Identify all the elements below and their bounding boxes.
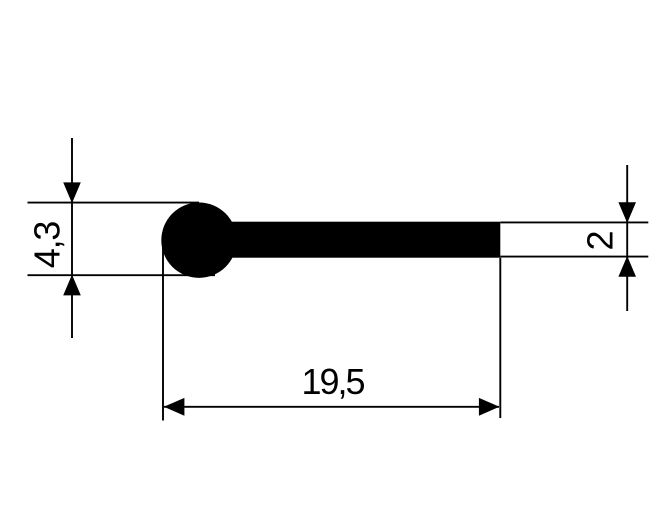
label 19,5 xyxy=(301,361,364,402)
svg-text:2: 2 xyxy=(580,232,621,251)
dimension line 4,3 (vertical stem) xyxy=(71,138,73,338)
profile body: flag bar xyxy=(199,222,500,258)
profile body: piping ball (circle) xyxy=(161,203,236,278)
svg-text:19,5: 19,5 xyxy=(301,361,364,402)
label 2 xyxy=(580,232,621,251)
arrowhead down (4,3 top) xyxy=(63,182,81,203)
svg-text:4,3: 4,3 xyxy=(27,222,68,269)
extension line left of 19,5 dimension (vertical) xyxy=(162,238,164,421)
dimension line 19,5 (horizontal) xyxy=(164,406,499,408)
arrowhead right (19,5) xyxy=(479,398,500,416)
arrowhead up (2 bottom) xyxy=(618,256,636,277)
dimension line 2 (vertical stem) xyxy=(626,165,628,311)
extension line top of 2 dimension xyxy=(500,221,648,223)
extension line bottom of 2 dimension xyxy=(500,256,648,258)
arrowhead left (19,5) xyxy=(164,398,185,416)
arrowhead down (2 top) xyxy=(618,202,636,223)
arrowhead up (4,3 bottom) xyxy=(63,275,81,296)
extension line bottom of 4,3 dimension xyxy=(28,274,216,276)
label 4,3 xyxy=(27,222,68,269)
extension line top of 4,3 dimension xyxy=(28,202,200,204)
extension line right of 19,5 dimension (vertical) xyxy=(499,258,501,418)
